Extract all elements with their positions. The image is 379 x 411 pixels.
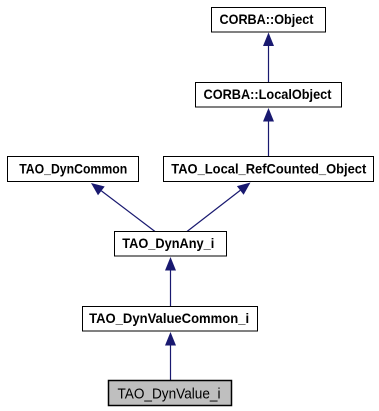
svg-text:CORBA::Object: CORBA::Object	[220, 11, 314, 27]
svg-text:TAO_Local_RefCounted_Object: TAO_Local_RefCounted_Object	[171, 161, 366, 177]
svg-text:TAO_DynCommon: TAO_DynCommon	[19, 161, 127, 177]
svg-text:TAO_DynValue_i: TAO_DynValue_i	[118, 387, 221, 403]
svg-text:TAO_DynAny_i: TAO_DynAny_i	[122, 235, 214, 251]
svg-text:CORBA::LocalObject: CORBA::LocalObject	[204, 86, 332, 102]
svg-text:TAO_DynValueCommon_i: TAO_DynValueCommon_i	[89, 310, 249, 326]
